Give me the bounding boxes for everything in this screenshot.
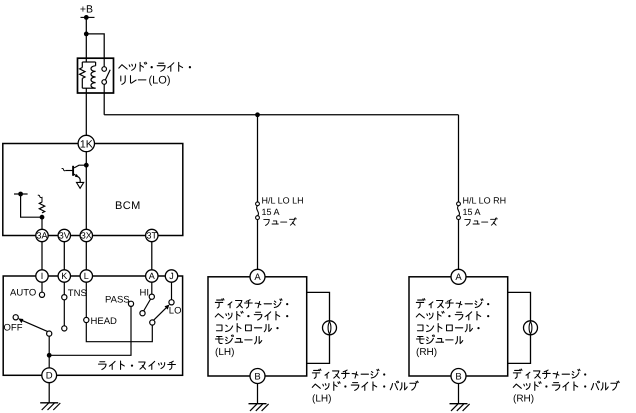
wire 3X to L [85,242,87,270]
svg-text:D: D [46,371,53,382]
HEAD contact [85,282,87,317]
wire +B to relay [85,17,87,58]
wire fuse to module LH [257,220,259,270]
TNS contacts [63,282,65,295]
svg-text:K: K [61,271,67,281]
module label [215,299,224,308]
bulb bracket [307,292,330,363]
connector pin K [58,270,70,282]
wire PASS down to OFF junction [49,306,131,355]
connector pin 3V [58,229,70,241]
connector pin L [80,270,92,282]
discharge headlight bulb (RH) [524,321,538,335]
svg-text:3X: 3X [81,231,92,241]
AUTO contact [41,282,43,292]
svg-text:A: A [149,271,155,281]
connector pin 3X [80,229,92,241]
connector B [250,369,265,384]
svg-text:15 A: 15 A [463,207,481,217]
ground under D [48,383,50,403]
svg-text:TNS: TNS [68,288,87,299]
svg-text:3A: 3A [36,231,47,241]
connector B [451,369,466,384]
svg-text:L: L [84,271,89,281]
connector pin I [36,270,48,282]
connector pin J [165,270,177,282]
connector D [42,368,57,383]
wire bus to LH fuse [257,115,259,202]
connector pin A [146,270,158,282]
connector 1K [78,135,94,151]
light switch box ライト・スイッチ [3,276,182,375]
connector pin 3A [36,229,48,241]
svg-text:1K: 1K [80,138,93,150]
connector pin 3T [146,229,158,241]
svg-text:A: A [254,272,261,283]
connector A [451,269,466,284]
connector A [250,269,265,284]
svg-text:A: A [455,272,462,283]
wire relay switch to bus [103,93,105,115]
svg-text:(LH): (LH) [312,394,331,405]
svg-text:HI: HI [140,287,150,298]
ground [450,403,468,405]
wire HEAD to dimmer pivot [86,323,152,342]
svg-text:3V: 3V [59,231,70,241]
junction LH tap [255,112,260,117]
junction [84,32,89,37]
svg-text:LO: LO [169,306,182,317]
BCM internal left: terminal and resistor [14,193,28,195]
open arrow to ground (emitter) [77,182,84,188]
svg-text:OFF: OFF [4,322,23,333]
bulb label [312,369,321,378]
wire 3V to K [63,242,65,270]
svg-text:AUTO: AUTO [10,287,36,298]
wire B to ground [257,384,259,404]
ground [249,403,267,405]
svg-text:PASS: PASS [105,295,130,306]
fuse element [457,202,461,206]
bulb bracket [508,292,531,363]
bulb label [513,369,522,378]
svg-text:(RH): (RH) [513,394,534,405]
wire 3T to A [151,242,153,270]
bus wire to RH fuse [104,114,458,116]
wire fuse to module RH [458,220,460,270]
svg-text:(LH): (LH) [215,347,234,358]
HI lever (open) [144,299,151,311]
wire junction to relay switch leg [86,34,104,58]
wire relay to 1K [85,93,87,135]
relay box ヘッド・ライト・リレー (LO) [78,58,114,93]
svg-text:(RH): (RH) [416,347,437,358]
discharge headlight control module (LH) box [208,277,307,376]
LO lever with arrow [154,307,168,321]
junction transistor tap [84,163,89,168]
internal resistor [39,202,44,213]
svg-text:3T: 3T [147,231,158,241]
HI contact [151,282,153,294]
module label [416,299,425,308]
fuse element [256,202,260,206]
svg-text:15 A: 15 A [262,207,280,217]
wire bus to RH fuse [458,115,460,202]
svg-text:B: B [455,371,461,382]
svg-text:H/L LO RH: H/L LO RH [463,195,507,205]
wire B to ground [458,384,460,404]
svg-text:(LO): (LO) [149,75,171,87]
svg-text:HEAD: HEAD [91,316,118,327]
relay switch contacts [103,58,105,67]
OFF contact and lever [13,315,18,320]
svg-text:B: B [254,371,260,382]
relay coil branch [85,58,87,62]
relay label [119,65,127,69]
svg-text:I: I [41,271,44,281]
discharge headlight control module (RH) box [409,277,508,376]
wire 1K to 3X [85,152,87,230]
transistor Q [74,165,86,168]
svg-text:J: J [169,271,174,281]
wire pivot to D [48,336,50,368]
svg-text:+B: +B [80,4,93,16]
discharge headlight bulb (LH) [323,321,337,335]
svg-text:BCM: BCM [115,200,141,212]
wire 3A to I [41,242,43,270]
BCM box [3,144,183,236]
svg-text:H/L LO LH: H/L LO LH [262,195,304,205]
LO contact [171,282,173,300]
